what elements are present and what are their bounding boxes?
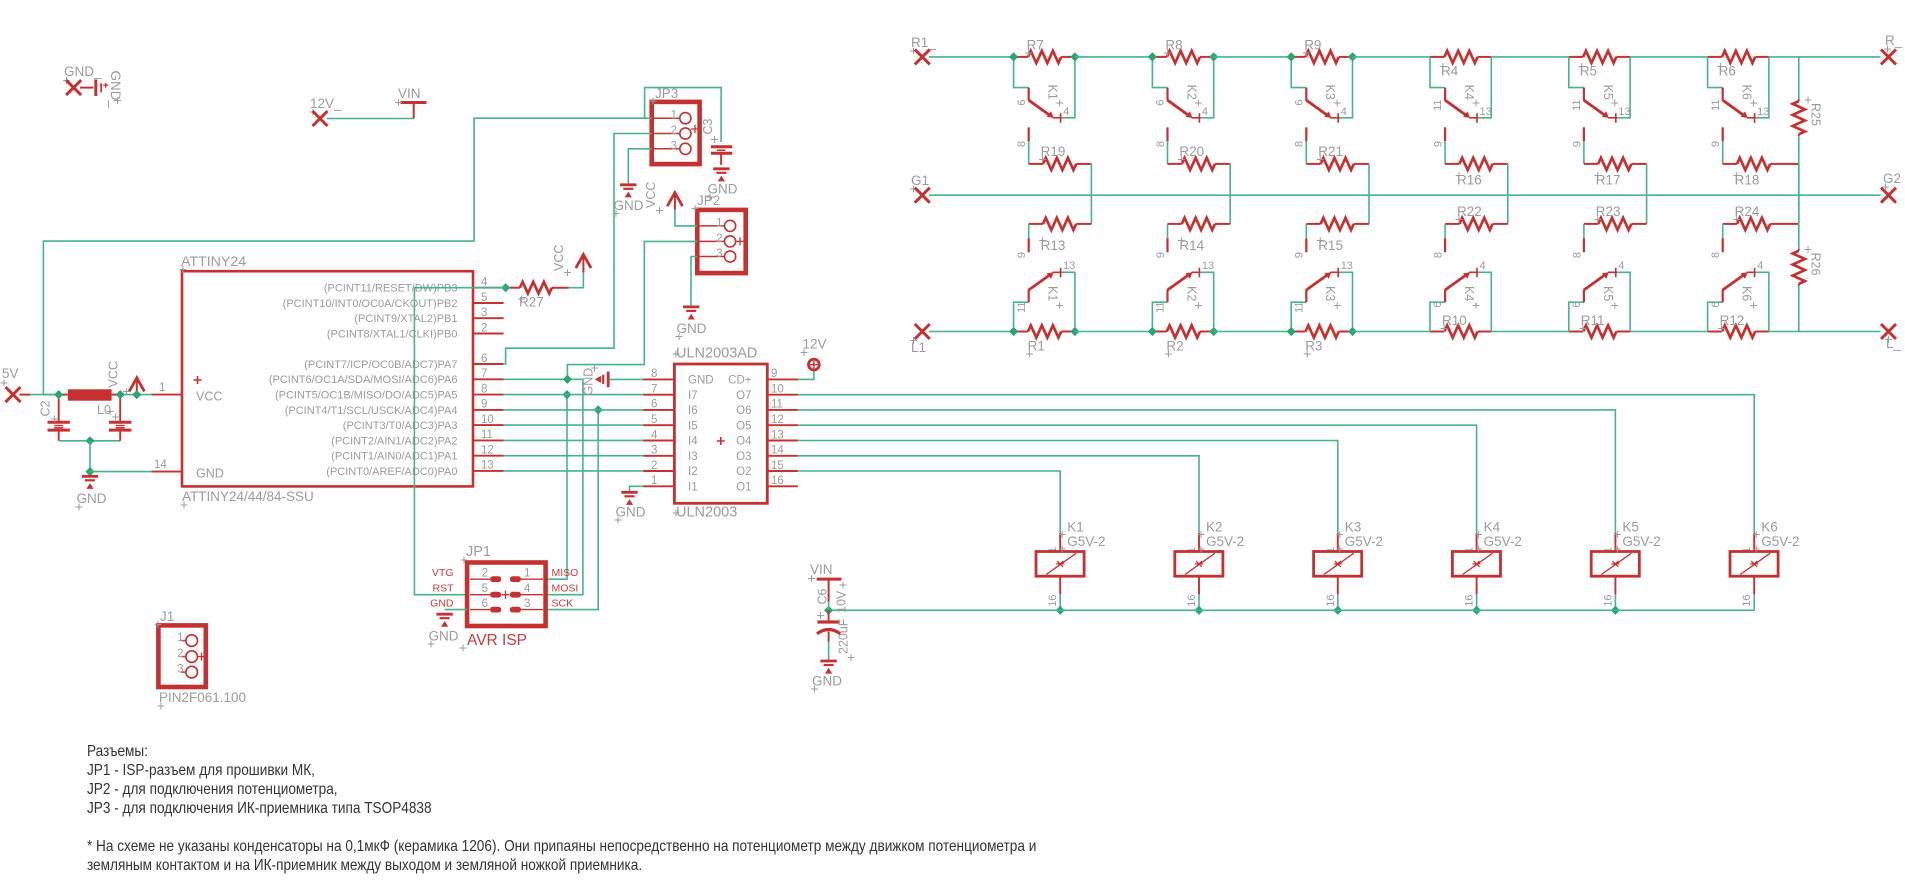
- svg-text:(PCINT10/INT0/OC0A/CKOUT)PB2: (PCINT10/INT0/OC0A/CKOUT)PB2: [283, 298, 458, 310]
- svg-text:4: 4: [1480, 260, 1486, 272]
- svg-text:J1: J1: [160, 609, 174, 624]
- wire SCK (PA4-JP1): [546, 410, 599, 610]
- pin stub 9 (mid bottom): [1305, 224, 1307, 238]
- svg-text:ULN2003: ULN2003: [676, 505, 737, 521]
- resistor R1: [1014, 331, 1028, 333]
- wire to GND (caps): [89, 441, 91, 472]
- ULN pin 3 I3: [643, 455, 674, 457]
- svg-text:G5V-2: G5V-2: [1622, 534, 1660, 549]
- svg-text:12V: 12V: [803, 337, 827, 352]
- svg-text:6: 6: [1155, 100, 1167, 106]
- svg-text:R2: R2: [1166, 339, 1183, 354]
- ULN pin 4 I4: [643, 440, 674, 442]
- resistor R9: [1291, 56, 1305, 58]
- ULN pin 13 O4: [767, 440, 798, 442]
- resistor R8: [1152, 56, 1166, 58]
- svg-text:14: 14: [154, 459, 167, 471]
- svg-text:(PCINT6/OC1A/SDA/MOSI/ADC6)PA6: (PCINT6/OC1A/SDA/MOSI/ADC6)PA6: [269, 374, 458, 386]
- svg-text:R18: R18: [1735, 173, 1760, 188]
- svg-text:K4: K4: [1484, 520, 1501, 535]
- pin stub 8 (mid bottom): [1722, 224, 1724, 238]
- svg-text:JP2 - для подключения потенцио: JP2 - для подключения потенциометра,: [87, 781, 338, 798]
- svg-text:6: 6: [1571, 302, 1583, 308]
- relay contact K1 (top, pins 6/4): [1014, 57, 1029, 88]
- JP3 pin 2: [652, 133, 679, 135]
- wire GND node to pin14: [90, 471, 152, 473]
- svg-text:K1: K1: [1046, 85, 1060, 100]
- connector JP2 body: [697, 210, 745, 273]
- svg-text:I5: I5: [688, 420, 698, 432]
- svg-text:R21: R21: [1318, 144, 1343, 159]
- svg-text:4: 4: [651, 429, 658, 441]
- ULN pin 15 O2: [767, 470, 798, 472]
- resistor R3: [1291, 331, 1305, 333]
- junction C2/C1 gnd mid: [85, 436, 94, 445]
- supply symbol VCC (JP2): [674, 195, 676, 210]
- resistor R13: [1076, 223, 1091, 225]
- svg-text:6: 6: [651, 399, 657, 411]
- svg-text:K3: K3: [1323, 286, 1337, 301]
- wire JP2 pin1 to VCC: [675, 210, 697, 226]
- pin 13 PA0: [473, 470, 504, 472]
- J1 pin 1: [181, 640, 186, 642]
- svg-text:9: 9: [1294, 252, 1306, 258]
- resistor R12: [1708, 331, 1722, 333]
- junction PA4/SCK: [594, 405, 603, 414]
- ULN pin 6 I6: [643, 409, 674, 411]
- pin stub 9 (mid top): [1583, 127, 1585, 141]
- wire C2/C1 bottom: [59, 440, 120, 442]
- svg-text:(PCINT4/T1/SCL/USCK/ADC4)PA4: (PCINT4/T1/SCL/USCK/ADC4)PA4: [285, 405, 458, 417]
- svg-text:O5: O5: [736, 420, 751, 432]
- svg-text:K6: K6: [1740, 85, 1754, 100]
- wire R19-R13: [1090, 164, 1092, 224]
- svg-text:15: 15: [771, 460, 784, 472]
- svg-text:12: 12: [481, 445, 494, 457]
- resistor R21: [1305, 141, 1307, 164]
- resistor R6: [1708, 56, 1722, 58]
- wire JP3 pin1 to C3: [645, 88, 722, 142]
- svg-text:GND: GND: [582, 368, 596, 396]
- pin 12 PA1: [473, 455, 504, 457]
- wire R25-R18 segment: [1798, 136, 1800, 249]
- svg-text:10: 10: [771, 384, 784, 396]
- JP1 pins 6/3: [470, 609, 490, 611]
- junction dots rails: [1009, 52, 1018, 61]
- svg-text:13: 13: [481, 460, 494, 472]
- relay contact K2 (top, pins 6/4): [1152, 57, 1167, 88]
- wire PA0 to I2: [504, 470, 643, 472]
- svg-text:R3: R3: [1305, 339, 1322, 354]
- svg-text:земляным контактом и на ИК-при: земляным контактом и на ИК-приемник межд…: [87, 857, 642, 874]
- svg-text:3: 3: [651, 445, 657, 457]
- svg-text:13: 13: [1757, 106, 1769, 118]
- wire relay supply rail: [829, 609, 1755, 611]
- wire VCC net (JP3 pin1 - left rail): [43, 118, 644, 394]
- svg-text:16: 16: [1325, 595, 1337, 607]
- resistor R10: [1430, 331, 1444, 333]
- svg-text:JP1: JP1: [466, 544, 491, 560]
- J1 pin 2: [181, 656, 186, 658]
- svg-text:R11: R11: [1581, 313, 1605, 328]
- resistor R17: [1583, 141, 1585, 164]
- svg-text:16: 16: [1602, 595, 1614, 607]
- svg-text:2: 2: [177, 648, 183, 660]
- svg-text:(PCINT7/ICP/OC0B/ADC7)PA7: (PCINT7/ICP/OC0B/ADC7)PA7: [304, 359, 457, 371]
- svg-text:GND_: GND_: [64, 64, 102, 79]
- ULN pin 8 GND: [643, 378, 674, 380]
- svg-text:R26: R26: [1809, 253, 1823, 276]
- ground symbol GND (left): [82, 475, 98, 478]
- supply symbol VIN (C6): [817, 578, 842, 581]
- svg-text:JP2: JP2: [697, 193, 720, 208]
- svg-text:11: 11: [771, 399, 783, 411]
- svg-text:G5V-2: G5V-2: [1484, 534, 1522, 549]
- svg-text:(PCINT3/T0/ADC3)PA3: (PCINT3/T0/ADC3)PA3: [343, 420, 458, 432]
- svg-text:(PCINT9/XTAL2)PB1: (PCINT9/XTAL2)PB1: [354, 313, 457, 325]
- svg-text:14: 14: [771, 445, 784, 457]
- svg-text:R25: R25: [1809, 103, 1823, 126]
- svg-text:K4: K4: [1462, 286, 1476, 301]
- svg-text:O6: O6: [736, 405, 751, 417]
- pin stub 9 (mid top): [1722, 127, 1724, 141]
- svg-text:11: 11: [1571, 100, 1583, 111]
- svg-text:10V: 10V: [835, 590, 849, 613]
- svg-text:4: 4: [524, 583, 531, 595]
- svg-text:R24: R24: [1735, 204, 1760, 219]
- svg-text:GND: GND: [614, 198, 644, 213]
- svg-text:GND: GND: [812, 674, 842, 689]
- svg-text:AVR ISP: AVR ISP: [467, 632, 527, 649]
- svg-text:GND: GND: [196, 467, 224, 481]
- svg-text:220uF: 220uF: [837, 618, 851, 654]
- svg-text:(PCINT5/OC1B/MISO/DO/ADC5)PA5: (PCINT5/OC1B/MISO/DO/ADC5)PA5: [275, 390, 458, 402]
- JP2 pin 1: [697, 225, 724, 227]
- svg-text:9: 9: [1433, 141, 1445, 147]
- svg-text:13: 13: [1202, 260, 1214, 272]
- svg-text:R19: R19: [1041, 144, 1066, 159]
- wire K3 pin16 to rail: [1337, 594, 1339, 610]
- wire rail bottom seg: [1075, 331, 1153, 333]
- JP1 pins 2/1: [470, 578, 490, 580]
- pin stub 9 (mid top): [1444, 127, 1446, 141]
- IC U1 ATTINY24 body: [182, 271, 473, 486]
- svg-text:1: 1: [716, 217, 722, 229]
- relay contact K6 (top, pins 11/13): [1708, 57, 1723, 88]
- svg-text:G5V-2: G5V-2: [1761, 534, 1799, 549]
- svg-text:GND: GND: [688, 375, 714, 387]
- wire 12V_ to VIN: [327, 118, 414, 120]
- svg-text:VCC: VCC: [196, 390, 222, 404]
- svg-text:(PCINT1/AIN0/ADC1)PA1: (PCINT1/AIN0/ADC1)PA1: [331, 451, 457, 463]
- svg-text:K6: K6: [1740, 286, 1754, 301]
- wire I1 to GND: [630, 486, 644, 492]
- svg-text:ATTINY24/44/84-SSU: ATTINY24/44/84-SSU: [182, 489, 314, 504]
- svg-text:VIN: VIN: [810, 562, 833, 577]
- svg-text:3: 3: [177, 664, 183, 676]
- svg-text:12V_: 12V_: [310, 96, 342, 111]
- svg-text:13: 13: [1480, 106, 1492, 118]
- svg-text:6: 6: [1016, 100, 1028, 106]
- svg-text:13: 13: [1063, 260, 1075, 272]
- wire R16-R22: [1507, 164, 1509, 224]
- svg-text:O1: O1: [736, 482, 751, 494]
- ULN pin 10 O7: [767, 394, 798, 396]
- wire RESET net: [506, 287, 510, 289]
- junction RESET: [501, 283, 510, 292]
- resistor R24: [1770, 223, 1799, 225]
- supply symbol VIN: [401, 101, 427, 104]
- svg-text:7: 7: [481, 368, 487, 380]
- svg-text:8: 8: [1433, 252, 1445, 258]
- svg-text:1: 1: [524, 567, 530, 579]
- pin stub 8 (mid top): [1305, 127, 1307, 141]
- wire MISO (PA5-JP1): [546, 395, 567, 580]
- svg-text:I1: I1: [688, 482, 698, 494]
- svg-text:5: 5: [482, 583, 488, 595]
- svg-text:1: 1: [159, 382, 165, 394]
- svg-text:3: 3: [716, 248, 722, 260]
- svg-text:8: 8: [1710, 252, 1722, 258]
- resistor R19: [1028, 141, 1030, 164]
- svg-text:VCC: VCC: [107, 361, 121, 387]
- relay contact K5 (bottom, pins 6/4): [1569, 302, 1584, 331]
- wire rail bottom seg: [1353, 331, 1431, 333]
- relay contact K4 (bottom, pins 6/4): [1430, 302, 1445, 331]
- pin 8 PA5: [473, 394, 504, 396]
- svg-text:11: 11: [1155, 302, 1167, 313]
- svg-text:I7: I7: [688, 390, 698, 402]
- svg-text:R9: R9: [1304, 38, 1321, 53]
- junction node VCC-5V: [54, 390, 63, 399]
- svg-text:6: 6: [481, 353, 487, 365]
- wire RST (PB3-JP1): [414, 288, 505, 595]
- svg-text:K5: K5: [1622, 520, 1639, 535]
- pin 7 PA6: [473, 378, 504, 380]
- wire ULN O6 to relay K5: [798, 410, 1616, 533]
- svg-text:9: 9: [1710, 141, 1722, 147]
- svg-text:K5: K5: [1601, 286, 1615, 301]
- ULN pin 11 O6: [767, 409, 798, 411]
- svg-text:9: 9: [481, 399, 487, 411]
- wire rail top seg: [1491, 56, 1569, 58]
- svg-text:R22: R22: [1457, 204, 1482, 219]
- svg-text:C3: C3: [701, 118, 715, 134]
- svg-text:11: 11: [1432, 100, 1444, 111]
- wire rail bottom seg: [1214, 331, 1292, 333]
- svg-text:GND: GND: [677, 321, 707, 336]
- svg-text:GND: GND: [430, 597, 454, 609]
- svg-text:GND: GND: [616, 505, 646, 520]
- supply symbol 12V (ULN CD+): [798, 371, 814, 380]
- ULN pin 9 CD+: [767, 378, 798, 380]
- ULN pin 7 I7: [643, 394, 674, 396]
- relay coil K1: [1059, 533, 1061, 551]
- svg-text:3: 3: [671, 140, 677, 152]
- pin stub 8 (mid top): [1166, 127, 1168, 141]
- resistor R7: [1014, 56, 1028, 58]
- resistor R27: [510, 287, 520, 289]
- battery/cap symbol at GND_ flag: [94, 80, 97, 97]
- pin 2 PB0: [473, 333, 504, 335]
- svg-text:MISO: MISO: [552, 567, 579, 579]
- svg-text:4: 4: [1757, 260, 1763, 272]
- relay coil K6: [1753, 533, 1755, 551]
- relay coil K4: [1476, 533, 1478, 551]
- supply symbol VCC (left): [136, 380, 138, 395]
- svg-text:SCK: SCK: [552, 597, 574, 609]
- ULN pin 2 I2: [643, 470, 674, 472]
- ULN pin 5 I5: [643, 424, 674, 426]
- wire rail bottom right seg: [1769, 331, 1881, 333]
- junction K3 rail: [1333, 606, 1342, 615]
- svg-text:R16: R16: [1457, 173, 1482, 188]
- svg-text:O2: O2: [736, 466, 751, 478]
- svg-text:8: 8: [1155, 141, 1167, 147]
- resistor R2: [1152, 331, 1166, 333]
- pin 11 PA2: [473, 439, 504, 441]
- relay contact K6 (bottom, pins 6/4): [1708, 302, 1723, 331]
- junction L0 right: [116, 390, 125, 399]
- junction K2 rail: [1194, 606, 1203, 615]
- svg-text:5: 5: [481, 292, 487, 304]
- svg-text:11: 11: [1710, 100, 1722, 111]
- capacitor C2: [58, 395, 60, 422]
- pin 3 PB1: [473, 317, 504, 319]
- wire ULN O3 to relay K2: [798, 456, 1199, 533]
- wire PA2 to I4: [504, 439, 643, 441]
- svg-text:4: 4: [481, 277, 488, 289]
- wire JP3 pin2 down: [503, 134, 652, 365]
- svg-text:GND_: GND_: [108, 71, 123, 109]
- wire 5V to node: [30, 394, 59, 396]
- wire JP3 pin3 to GND: [628, 149, 651, 185]
- connector J1 body: [158, 625, 205, 687]
- svg-text:O4: O4: [736, 436, 752, 448]
- svg-text:R5: R5: [1580, 64, 1597, 79]
- svg-text:R23: R23: [1596, 204, 1621, 219]
- junction C6 rail: [824, 606, 833, 615]
- pin 5 PB2: [473, 302, 504, 304]
- svg-text:K3: K3: [1323, 85, 1337, 100]
- svg-text:(PCINT2/AIN1/ADC2)PA2: (PCINT2/AIN1/ADC2)PA2: [331, 435, 457, 447]
- svg-text:I4: I4: [688, 436, 698, 448]
- JP3 pin 3: [652, 148, 679, 150]
- wire R26 to rail: [1798, 286, 1800, 332]
- ground symbol GND (JP1): [436, 613, 452, 616]
- svg-text:R6: R6: [1719, 64, 1736, 79]
- IC U2 ULN2003AD body: [674, 364, 767, 503]
- svg-text:11: 11: [1293, 302, 1305, 313]
- svg-text:K5: K5: [1601, 85, 1615, 100]
- svg-text:JP1 - ISP-разъем для прошивки: JP1 - ISP-разъем для прошивки МК,: [87, 762, 315, 779]
- resistor R16: [1444, 141, 1446, 164]
- wire K1 pin16 to rail: [1059, 594, 1061, 610]
- svg-text:2: 2: [671, 125, 677, 137]
- resistor R15: [1354, 223, 1369, 225]
- svg-text:K1: K1: [1067, 520, 1084, 535]
- svg-text:16: 16: [1464, 595, 1476, 607]
- resistor R4: [1430, 56, 1444, 58]
- pin 4 PB3: [473, 287, 504, 289]
- pin 9 PA4: [473, 409, 504, 411]
- svg-text:ULN2003AD: ULN2003AD: [676, 346, 757, 362]
- wire K4 pin16 to rail: [1476, 594, 1478, 610]
- svg-text:G5V-2: G5V-2: [1067, 534, 1105, 549]
- svg-text:(PCINT11/RESET/DW)PB3: (PCINT11/RESET/DW)PB3: [324, 283, 458, 295]
- pin 14 GND: [152, 471, 183, 473]
- pin stub 9 (mid bottom): [1167, 224, 1169, 238]
- svg-text:GND: GND: [429, 629, 459, 644]
- svg-text:13: 13: [1618, 106, 1630, 118]
- wire ULN O5 to relay K4: [798, 425, 1477, 533]
- relay contact K3 (top, pins 6/4): [1291, 57, 1306, 88]
- wire rail bottom seg: [1630, 331, 1708, 333]
- svg-text:K4: K4: [1462, 85, 1476, 100]
- resistor R22: [1493, 223, 1508, 225]
- svg-text:4: 4: [1063, 106, 1069, 118]
- junction PA6/JP2: [563, 375, 572, 384]
- ULN pin 14 O3: [767, 455, 798, 457]
- wire ULN O7 to relay K6: [798, 395, 1754, 533]
- svg-text:8: 8: [651, 368, 657, 380]
- svg-text:3: 3: [481, 307, 487, 319]
- pin 6 PA7: [473, 363, 504, 365]
- svg-text:16: 16: [771, 475, 784, 487]
- svg-text:K2: K2: [1184, 286, 1198, 301]
- svg-text:R20: R20: [1179, 144, 1204, 159]
- ground symbol GND (ULN pin8, rotated): [608, 378, 643, 380]
- relay contact K3 (bottom, pins 11/13): [1291, 302, 1306, 331]
- JP2 pin 2: [697, 240, 724, 242]
- svg-text:9: 9: [1571, 141, 1583, 147]
- resistor R20: [1167, 141, 1169, 164]
- JP1 pins 5/4: [470, 594, 490, 596]
- ground symbol GND (I1): [621, 491, 637, 494]
- svg-text:C6: C6: [816, 588, 830, 604]
- resistor R26: [1798, 249, 1800, 251]
- svg-text:8: 8: [1294, 141, 1306, 147]
- svg-text:12: 12: [771, 414, 784, 426]
- resistor R11: [1569, 331, 1583, 333]
- pin stub 8 (mid bottom): [1583, 224, 1585, 238]
- svg-text:7: 7: [651, 384, 657, 396]
- svg-text:MOSI: MOSI: [552, 583, 579, 595]
- pin stub 8 (mid top): [1028, 127, 1030, 141]
- relay coil K5: [1614, 533, 1616, 551]
- ULN pin 16 O1: [767, 485, 798, 487]
- wire PA1 to I3: [504, 455, 643, 457]
- wire R17-R23: [1646, 164, 1648, 224]
- svg-text:Разъемы:: Разъемы:: [87, 743, 148, 760]
- svg-text:8: 8: [481, 383, 487, 395]
- wire rail top seg: [1353, 56, 1431, 58]
- relay contact K5 (top, pins 11/13): [1569, 57, 1584, 88]
- wire JP2 pin2 (wiper) to PA6: [567, 241, 697, 379]
- svg-text:I3: I3: [688, 451, 698, 463]
- wire JP1 GND: [445, 609, 468, 611]
- svg-text:6: 6: [1432, 302, 1444, 308]
- wire ULN O2 to relay K1: [798, 471, 1060, 533]
- svg-text:ATTINY24: ATTINY24: [181, 254, 246, 270]
- wire R18-R24: [1798, 164, 1800, 224]
- svg-text:K6: K6: [1761, 520, 1778, 535]
- wire K2 pin16 to rail: [1198, 594, 1200, 610]
- wire R20-R14: [1229, 164, 1231, 224]
- svg-text:VCC: VCC: [644, 182, 658, 208]
- svg-text:R1_: R1_: [911, 35, 936, 50]
- svg-text:R27: R27: [519, 295, 544, 310]
